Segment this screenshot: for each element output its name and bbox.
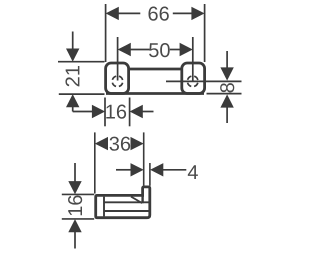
side view inner bottom line (105, 210, 150, 212)
extension/centerline 50 left (117, 37, 119, 81)
label 36 (110, 137, 131, 151)
extension line 21 bottom (59, 93, 105, 95)
label 66 (148, 7, 168, 21)
front view right post (182, 63, 205, 94)
side view inner top line (105, 201, 150, 203)
extension line 16 top (lower) (62, 193, 94, 195)
extension line 66 right (204, 4, 206, 62)
extension line 21 top (58, 61, 105, 63)
label 16 upper (106, 105, 126, 119)
extension line 36 right / 4 left (143, 132, 145, 185)
dimension 16 upper (73, 105, 154, 118)
extension line 4 right (149, 163, 151, 186)
label 4 (188, 165, 198, 179)
front view left post (106, 63, 129, 94)
extension line 66 left (105, 4, 107, 62)
dimension 8 (220, 51, 233, 123)
extension line 16 left (upper) (104, 98, 106, 127)
label 16 lower (68, 195, 82, 215)
extension line 16 right (upper) (129, 98, 131, 127)
dimension 16 lower (68, 163, 81, 249)
label 8 (220, 83, 234, 92)
dimension 4 (116, 163, 186, 176)
extension line 8 bottom (207, 93, 242, 95)
dimension 50 (118, 43, 193, 56)
label 21 (65, 66, 79, 86)
side view wall plate inner edge (103, 197, 105, 217)
label 50 (149, 43, 170, 57)
extension line 36 left (94, 132, 96, 193)
dimension 36 (95, 137, 144, 150)
side view outer outline (96, 187, 150, 218)
dimension 66 (106, 7, 205, 20)
side view hook tip inner edge (141, 194, 143, 203)
side view hook inner diagonal (131, 197, 142, 204)
bar bottom edge (106, 92, 204, 95)
extension line 16 bottom (lower) (62, 218, 94, 220)
left post hidden hole (dashed circle) (112, 76, 123, 87)
extension line 8 top (166, 80, 242, 82)
bar top edge (129, 68, 182, 71)
dimension 21 (66, 32, 79, 112)
extension/centerline 50 right (192, 37, 194, 81)
right post hidden hole (dashed circle) (187, 76, 198, 87)
